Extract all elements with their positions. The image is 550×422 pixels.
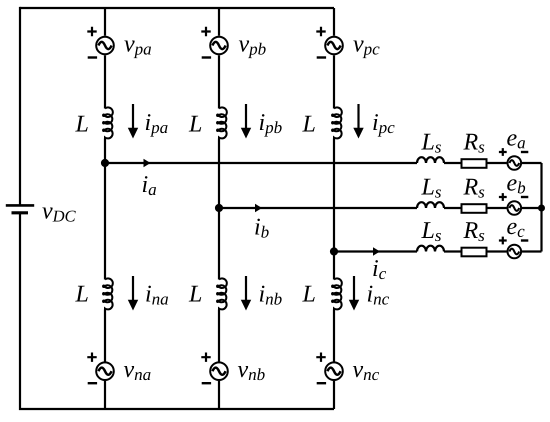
wire leg a [104,8,106,409]
label ea [507,134,525,148]
label ib [255,219,268,238]
label inb [260,286,282,305]
label Rs a [463,134,484,153]
label ipb [260,114,282,137]
current arrow ina [128,276,138,311]
label vna [124,366,151,380]
label ia [143,176,156,195]
label vpc [353,40,379,58]
wire leg c [333,8,335,409]
battery vDC [6,205,34,212]
label ipc [373,114,394,137]
source eb [499,193,528,215]
label vpa [124,40,151,58]
wire left rail upper [19,7,21,206]
source vpa [87,27,114,58]
current arrow ipb [241,104,251,139]
label L lower b [189,286,201,302]
current arrow inc [349,276,359,311]
resistor Rs phase b [462,204,487,213]
label ina [146,286,168,305]
label vDC [42,207,75,221]
node a junction dot [101,159,109,167]
wire phase c output line [334,250,542,252]
inductor Ls phase a [417,157,444,163]
source vnc [316,353,343,384]
inductor L lower arm b [217,278,227,309]
resistor Rs phase a [462,159,487,168]
inductor Ls phase c [417,246,444,252]
wire phase a output line [105,162,542,164]
arrow ia [144,159,151,167]
label L lower c [302,286,314,302]
label Ls b [421,179,441,198]
current arrow ipc [353,104,363,139]
wire phase b output line [219,207,542,209]
node c junction dot [330,247,338,255]
wire left rail lower and bottom rail [20,213,334,409]
node b junction dot [215,204,223,212]
inductor L upper arm c [332,107,342,138]
node bus junction dot [538,205,545,212]
source ea [499,148,528,170]
wire top rail [20,7,334,9]
label Ls a [421,134,441,153]
label vnb [238,366,265,380]
inductor L upper arm b [217,107,227,138]
inductor L lower arm c [332,278,342,309]
inductor L lower arm a [103,278,113,309]
current arrow inb [241,276,251,311]
wire leg b [218,8,220,409]
source vpc [316,27,343,58]
label L upper b [189,116,201,132]
inductor L upper arm a [103,107,113,138]
source ec [499,237,528,259]
label vnc [353,366,379,380]
label ic [373,260,386,279]
source vna [87,353,114,384]
label inc [368,286,389,305]
arrow ib [255,204,262,212]
label eb [507,179,525,193]
inductor Ls phase b [417,202,444,208]
label Rs c [463,222,484,241]
current arrow ipa [128,104,138,139]
label L upper a [75,116,87,132]
label vpb [239,40,266,58]
label L upper c [302,116,314,132]
wire right bus [540,163,542,252]
source vnb [201,353,228,384]
source vpb [201,27,228,58]
label L lower a [75,286,87,302]
label Rs b [463,179,484,198]
arrow ic [373,247,380,255]
label Ls c [421,222,441,241]
resistor Rs phase c [462,248,487,257]
label ec [507,223,524,237]
label ipa [146,114,168,137]
